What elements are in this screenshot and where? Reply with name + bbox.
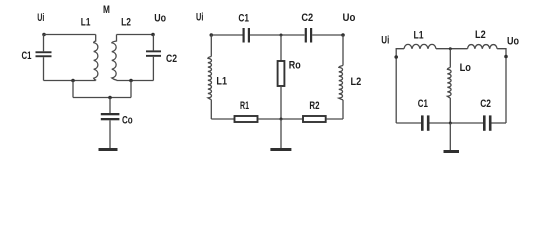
node Uo dot (504, 55, 508, 59)
wire left drop (72, 81, 74, 98)
wire right drop (130, 81, 132, 98)
inductor L1 (404, 44, 436, 48)
ground (444, 150, 460, 153)
wire L2 bottom lead (342, 100, 344, 119)
wire ground lead (449, 123, 451, 150)
node right dot (341, 33, 345, 37)
wire L1 top lead (210, 35, 212, 57)
wire Ro bottom lead (280, 86, 282, 119)
wire bottom seg2 (258, 118, 303, 120)
svg-text:C2: C2 (166, 53, 177, 65)
node mid-top junction (280, 34, 283, 37)
inductor L2 (468, 45, 498, 49)
svg-text:L1: L1 (414, 30, 424, 42)
svg-text:Lo: Lo (460, 62, 472, 74)
wire Ro top lead (280, 35, 282, 61)
wire top seg2 (250, 34, 305, 36)
svg-text:C1: C1 (238, 13, 249, 25)
wire C2 bottom lead (152, 57, 154, 81)
inductor L2 (112, 35, 117, 81)
svg-text:L1: L1 (216, 76, 227, 88)
node junction left dot (71, 79, 75, 83)
node ground junction (280, 118, 283, 121)
wire L1 bottom lead (210, 100, 212, 119)
wire bracket (73, 97, 131, 99)
wire Lo bottom lead (449, 98, 451, 123)
capacitor C1 (421, 115, 430, 130)
wire bottom seg2 (430, 122, 484, 124)
svg-text:Ui: Ui (37, 12, 44, 24)
wire Lo top lead (449, 49, 451, 68)
svg-text:Uo: Uo (343, 12, 356, 24)
capacitor C1 (36, 51, 52, 57)
wire C1 top lead (43, 35, 45, 52)
node Ui dot (42, 33, 46, 37)
svg-text:Ui: Ui (381, 35, 389, 47)
svg-text:Ui: Ui (196, 11, 203, 23)
resistor Ro (278, 61, 285, 86)
wire top mid (436, 48, 468, 50)
svg-text:L2: L2 (475, 29, 486, 41)
wire Co top lead (109, 98, 111, 114)
wire C2 top lead (152, 35, 154, 51)
ground (270, 148, 291, 151)
resistor R2 (303, 116, 326, 122)
node Ui dot (394, 55, 398, 59)
wire left loop bottom (44, 80, 96, 82)
capacitor C2 (146, 50, 161, 56)
svg-text:Ro: Ro (289, 60, 301, 72)
svg-text:C1: C1 (418, 98, 428, 110)
node Uo dot (151, 33, 155, 37)
wire top-right (117, 34, 154, 36)
svg-text:L2: L2 (121, 17, 131, 29)
svg-text:C2: C2 (301, 12, 313, 24)
inductor L1 (208, 57, 212, 100)
capacitor C2 (305, 28, 313, 43)
svg-text:R1: R1 (240, 100, 249, 112)
wire right vertical (497, 49, 506, 123)
svg-text:L2: L2 (351, 76, 362, 88)
svg-text:Uo: Uo (154, 13, 166, 25)
svg-text:M: M (103, 4, 110, 16)
svg-text:L1: L1 (81, 17, 91, 29)
svg-text:R2: R2 (309, 100, 319, 112)
svg-text:C1: C1 (22, 50, 32, 62)
wire left vertical (396, 49, 404, 123)
capacitor C2 (483, 115, 492, 130)
ground (99, 148, 118, 151)
wire top-left (44, 34, 96, 36)
node mid-top junction (449, 47, 452, 50)
capacitor C1 (243, 28, 251, 43)
svg-text:C2: C2 (480, 98, 491, 110)
svg-text:Uo: Uo (507, 35, 519, 47)
wire bottom seg3 (326, 118, 343, 120)
wire top seg1 (211, 34, 242, 36)
wire top seg3 (312, 34, 343, 36)
node bottom junction (449, 122, 452, 125)
capacitor Co (101, 113, 120, 120)
wire C1 bottom lead (43, 57, 45, 80)
inductor L2 (339, 66, 343, 100)
wire bottom seg1 (396, 122, 421, 124)
wire L2 top lead (342, 35, 344, 66)
inductor Lo (447, 68, 451, 99)
wire bottom seg3 (492, 122, 507, 124)
svg-text:Co: Co (122, 114, 133, 126)
inductor L1 (94, 35, 98, 81)
node junction right dot (129, 79, 133, 83)
node center dot (108, 96, 112, 100)
node left dot (210, 33, 214, 37)
wire right loop bottom (117, 80, 154, 82)
wire ground lead (280, 119, 282, 148)
wire bottom seg1 (211, 118, 234, 120)
resistor R1 (235, 116, 258, 122)
wire Co bottom lead (109, 120, 111, 148)
